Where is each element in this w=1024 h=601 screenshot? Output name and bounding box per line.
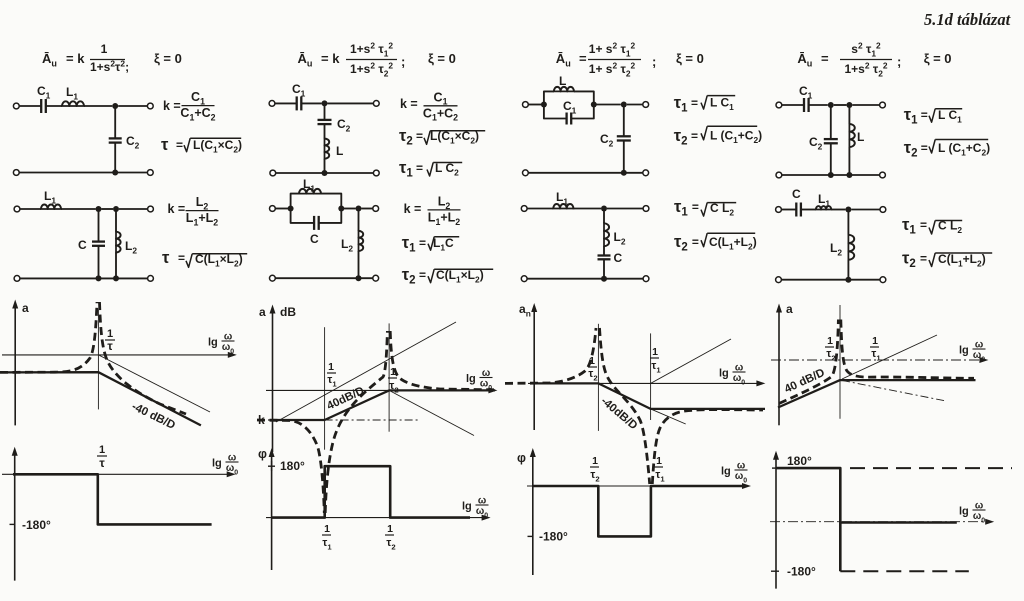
wire: parallel box frame (col2 ckt2) bbox=[291, 194, 342, 209]
curve: notch+resonance response dashed (col2 magnitude) bbox=[257, 331, 494, 513]
capacitor C2 shunt (col3 ckt1) bbox=[617, 135, 631, 137]
terminal: top-left (col4 ckt2) bbox=[776, 207, 782, 213]
svg-text:k =: k = bbox=[163, 99, 181, 113]
svg-text:;: ; bbox=[401, 54, 405, 69]
wire: bottom rail (col3 ckt1) bbox=[528, 172, 643, 174]
wire: shunt branch lower (col2 ckt1) bbox=[324, 159, 326, 173]
svg-text:=: = bbox=[176, 138, 183, 152]
asymptote: rising 40dB/D thin line (col2 magnitude) bbox=[276, 322, 456, 422]
node: parallel box left (col3 ckt1) bbox=[541, 102, 547, 108]
node: shunt junction top (col4 ckt2) bbox=[845, 207, 851, 213]
wire: input top rail (col2 ckt1) bbox=[275, 102, 297, 104]
terminal: bottom-left (col2 ckt2) bbox=[270, 275, 276, 281]
axis: vertical phi-axis (col1 phase) bbox=[14, 450, 16, 581]
inductor L2 shunt (col3 ckt2) bbox=[604, 223, 609, 246]
axis: vertical phi-axis (col2 phase) bbox=[271, 451, 273, 570]
capacitor C2 shunt (col1 ckt1) bbox=[109, 137, 122, 139]
axis: horizontal lg w/w0 axis (col3 phase) bbox=[527, 485, 745, 487]
curve: phase step +180 to 0 (col4 phase) bbox=[776, 468, 957, 571]
gridline at 1/tau2 (col2 magnitude) bbox=[388, 323, 390, 431]
svg-text:1: 1 bbox=[387, 523, 393, 535]
node: bottom junction (col2 ckt2) bbox=[356, 275, 362, 281]
svg-text:1: 1 bbox=[652, 346, 658, 358]
svg-text:=: = bbox=[921, 108, 928, 122]
gridline at 1/tau2 (col3 magnitude) bbox=[597, 324, 599, 431]
axis: vertical a-axis (col4 magnitude) bbox=[778, 307, 780, 425]
curve: phase pulse 0/-180 (col3 phase) bbox=[533, 486, 745, 536]
line: dashed -180 continuation (col4 phase) bbox=[840, 570, 969, 572]
gridline at 1/tau2 (col4 magnitude) bbox=[839, 305, 841, 419]
svg-text:lg: lg bbox=[721, 466, 731, 478]
wire: shunt branch (col1 ckt1) bbox=[114, 106, 116, 138]
svg-text:1: 1 bbox=[592, 455, 598, 467]
node: shunt junction top (col3 ckt2) bbox=[601, 206, 607, 212]
svg-text:1: 1 bbox=[656, 455, 662, 467]
svg-text:τ: τ bbox=[161, 136, 169, 154]
svg-text:=: = bbox=[920, 252, 927, 266]
node: shunt junction top (col3 ckt1) bbox=[621, 102, 627, 108]
curve: resonance response dashed (col1 magnitude) bbox=[0, 302, 186, 414]
wire: bottom rail (col2 ckt1) bbox=[276, 172, 374, 174]
svg-text:lg: lg bbox=[208, 337, 218, 349]
svg-text:=: = bbox=[416, 129, 423, 143]
terminal: top-right (col2 ckt2) bbox=[373, 206, 379, 212]
svg-text:lg: lg bbox=[959, 345, 969, 357]
terminal: bottom-left (col1 ckt1) bbox=[13, 170, 19, 176]
asymptote: rising 40dB/D then k level (col4 magnitude) bbox=[778, 380, 976, 407]
capacitor C (col4 ckt2) bbox=[795, 203, 797, 217]
terminal: top-left (col3 ckt1) bbox=[523, 102, 529, 108]
asymptote: rising thin extension (col4 magnitude) bbox=[842, 335, 937, 379]
inductor L1 (col4 ckt2) bbox=[816, 206, 831, 209]
node: top junction L (col4 ckt1) bbox=[846, 102, 852, 108]
asymptote: 0dB then -40dB/D then k level (col3 magnitude) bbox=[534, 383, 765, 409]
node: parallel box right (col3 ckt1) bbox=[591, 102, 597, 108]
terminal: top-left (col2 ckt1) bbox=[269, 101, 275, 107]
inductor L2 shunt (col2 ckt2) bbox=[359, 231, 364, 251]
inductor L1 (col3 ckt2) bbox=[553, 204, 573, 209]
terminal: top-left (col4 ckt1) bbox=[776, 102, 782, 108]
node: bottom junction L (col4 ckt1) bbox=[846, 172, 852, 178]
terminal: bottom-left (col3 ckt1) bbox=[523, 170, 529, 176]
node: top junction C2 (col4 ckt1) bbox=[828, 102, 834, 108]
wire: bottom rail (col1 ckt1) bbox=[19, 172, 148, 174]
wire: input top rail (col2 ckt2) bbox=[275, 208, 291, 210]
asymptote: descending dash-dot thin line (col4 magnitude) bbox=[842, 380, 946, 401]
svg-text:-180°: -180° bbox=[787, 565, 816, 579]
svg-text:=: = bbox=[178, 251, 185, 265]
terminal: top-right (col1 ckt1) bbox=[147, 103, 153, 109]
terminal: top-left (col2 ckt2) bbox=[270, 206, 276, 212]
inductor L shunt (col4 ckt1) bbox=[849, 124, 854, 147]
svg-text:φ: φ bbox=[258, 447, 267, 461]
svg-text:=: = bbox=[921, 141, 928, 155]
node: top junction (col2 ckt1) bbox=[322, 100, 328, 106]
wire: input top rail (col4 ckt1) bbox=[782, 104, 805, 106]
svg-text:k =: k = bbox=[168, 202, 186, 216]
node: top junction C branch (col1 ckt2) bbox=[96, 206, 102, 212]
terminal: top-left (col1 ckt2) bbox=[14, 206, 20, 212]
terminal: bottom-right (col1 ckt2) bbox=[148, 276, 154, 282]
terminal: bottom-left (col1 ckt2) bbox=[14, 276, 20, 282]
gridline at 1/tau (col1 magnitude) bbox=[97, 310, 99, 410]
svg-text:;: ; bbox=[897, 54, 901, 69]
axis: horizontal lg w/w0 axis (col3 magnitude) bbox=[528, 382, 759, 384]
svg-text:1: 1 bbox=[328, 361, 334, 373]
svg-text:1: 1 bbox=[324, 523, 330, 535]
svg-text:L: L bbox=[336, 144, 343, 158]
svg-text:L: L bbox=[857, 130, 864, 144]
terminal: top-right (col3 ckt2) bbox=[643, 206, 649, 212]
axis: horizontal lg w/w0 axis (col1 phase) bbox=[2, 473, 230, 475]
terminal: top-right (col2 ckt1) bbox=[373, 101, 379, 107]
svg-text:k =: k = bbox=[400, 97, 418, 111]
asymptote: -40dB/D thin extension (col3 magnitude) bbox=[651, 409, 686, 424]
inductor L1 (col1 ckt1) bbox=[62, 101, 84, 106]
terminal: top-right (col3 ckt1) bbox=[643, 102, 649, 108]
axis: horizontal lg w/w0 axis dash-dot (col4 phase) bbox=[770, 521, 988, 523]
tick 180 (col2 phase) bbox=[268, 465, 275, 467]
svg-text:=: = bbox=[691, 96, 698, 110]
svg-text:;: ; bbox=[652, 54, 656, 69]
tick 180 (col4 phase) bbox=[772, 467, 780, 469]
node: bottom junction (col4 ckt2) bbox=[845, 277, 851, 283]
tick -180 (col1 phase) bbox=[10, 523, 16, 525]
svg-text:lg: lg bbox=[462, 501, 472, 513]
svg-text:1: 1 bbox=[99, 444, 105, 456]
terminal: bottom-right (col3 ckt2) bbox=[643, 276, 649, 282]
svg-text:= k: = k bbox=[66, 51, 85, 66]
svg-text:180°: 180° bbox=[787, 454, 812, 468]
wire: shunt L2 branch (col4 ckt2) bbox=[847, 210, 849, 235]
svg-text:k =: k = bbox=[404, 202, 422, 216]
tick k (col2 magnitude) bbox=[268, 419, 277, 421]
svg-text:τ: τ bbox=[107, 339, 113, 353]
svg-text:1: 1 bbox=[872, 335, 878, 347]
wire: shunt branch middle (col3 ckt2) bbox=[603, 246, 605, 255]
axis: horizontal lg w/w0 axis (col1 magnitude) bbox=[2, 354, 231, 356]
wire: bottom rail (col1 ckt2) bbox=[20, 277, 148, 279]
node: parallel box left (col2 ckt2) bbox=[288, 206, 294, 212]
axis: vertical a-axis (col1 magnitude) bbox=[14, 303, 16, 425]
terminal: bottom-left (col4 ckt2) bbox=[776, 277, 782, 283]
asymptote: k level solid then rising 40dB/D (col2 magnitude) bbox=[273, 390, 496, 420]
svg-text:=: = bbox=[920, 218, 927, 232]
node: bottom junction C2 (col4 ckt1) bbox=[828, 172, 834, 178]
wire: parallel box frame (col3 ckt1) bbox=[544, 91, 594, 104]
terminal: bottom-left (col4 ckt1) bbox=[776, 172, 782, 178]
svg-text:a: a bbox=[22, 301, 29, 315]
svg-text:C: C bbox=[78, 238, 87, 252]
wire: bottom rail (col4 ckt1) bbox=[782, 174, 880, 176]
capacitor C shunt (col1 ckt2) bbox=[92, 240, 105, 242]
wire: shunt C2 branch (col4 ckt1) bbox=[830, 105, 832, 139]
axis: vertical phi-axis (col4 phase) bbox=[775, 453, 777, 589]
svg-text:=: = bbox=[579, 51, 587, 66]
capacitor C1 (col4 ckt1) bbox=[803, 98, 805, 112]
svg-text:L: L bbox=[559, 74, 566, 88]
wire: bottom rail (col2 ckt2) bbox=[276, 277, 374, 279]
svg-text:=: = bbox=[419, 236, 426, 250]
gridline at 1/tau1 (col3 magnitude) bbox=[650, 333, 652, 420]
axis: horizontal lg w/w0 axis (col2 magnitude) bbox=[266, 389, 491, 391]
svg-text:lg: lg bbox=[719, 368, 729, 380]
svg-text:a: a bbox=[259, 305, 266, 319]
node: shunt junction top (col2 ckt2) bbox=[356, 206, 362, 212]
terminal: bottom-right (col4 ckt2) bbox=[880, 277, 886, 283]
svg-text:a: a bbox=[786, 302, 793, 316]
inductor L shunt (col2 ckt1) bbox=[325, 139, 330, 159]
asymptote: 0dB -40dB/D thin line (col1 magnitude) bbox=[98, 355, 210, 412]
curve: resonance response dashed (col4 magnitude) bbox=[779, 320, 974, 404]
terminal: top-right (col4 ckt2) bbox=[880, 207, 886, 213]
svg-text:dB: dB bbox=[280, 305, 296, 319]
svg-text:=: = bbox=[692, 200, 699, 214]
wire: shunt C branch (col1 ckt2) bbox=[98, 209, 100, 242]
asymptote: k level + -40dB/D slope (col1 magnitude) bbox=[0, 372, 201, 425]
terminal: bottom-right (col1 ckt1) bbox=[147, 170, 153, 176]
svg-text:1: 1 bbox=[827, 335, 833, 347]
svg-text:= k: = k bbox=[321, 51, 340, 66]
inductor L1 (col2 ckt2) bbox=[299, 189, 321, 194]
svg-text:lg: lg bbox=[212, 458, 222, 470]
capacitor C (col2 ckt2) bbox=[313, 216, 315, 230]
axis: horizontal lg w/w0 axis dash-dot (col4 magnitude) bbox=[771, 359, 982, 361]
axis: vertical a-axis (col2 magnitude) bbox=[272, 308, 274, 452]
terminal: top-left (col1 ckt1) bbox=[13, 103, 19, 109]
terminal: bottom-right (col2 ckt1) bbox=[373, 170, 379, 176]
inductor L2 shunt (col4 ckt2) bbox=[848, 235, 854, 260]
wire: input top rail (col4 ckt2) bbox=[781, 209, 796, 211]
axis: vertical a-axis (col3 magnitude) bbox=[533, 306, 535, 430]
gridline at 1/tau1 (col2 magnitude) bbox=[324, 327, 326, 450]
terminal: top-left (col3 ckt2) bbox=[521, 206, 527, 212]
node: bottom junction (col3 ckt1) bbox=[621, 170, 627, 176]
tick -180 (col4 phase) bbox=[771, 570, 779, 572]
wire: shunt branch upper (col2 ckt1) bbox=[324, 103, 326, 120]
svg-text:C1+C2: C1+C2 bbox=[423, 106, 458, 122]
svg-text:180°: 180° bbox=[280, 459, 305, 473]
capacitor C1 (col2 ckt1) bbox=[296, 96, 298, 110]
svg-text:1: 1 bbox=[101, 42, 108, 56]
svg-text:-180°: -180° bbox=[539, 530, 568, 544]
svg-text:=: = bbox=[821, 51, 829, 66]
svg-text:=: = bbox=[691, 129, 698, 143]
svg-text:ξ = 0: ξ = 0 bbox=[676, 51, 704, 66]
svg-text:τ: τ bbox=[162, 249, 170, 267]
terminal: bottom-right (col4 ckt1) bbox=[880, 172, 886, 178]
svg-text:5.1d táblázat: 5.1d táblázat bbox=[924, 10, 1011, 29]
svg-text:C: C bbox=[614, 251, 623, 265]
node: bottom junction L2 (col1 ckt2) bbox=[113, 275, 119, 281]
line: dashed +180 continuation (col4 phase) bbox=[850, 467, 1012, 469]
svg-text:ξ = 0: ξ = 0 bbox=[428, 51, 456, 66]
svg-text:C1+C2: C1+C2 bbox=[180, 106, 215, 122]
wire: input top rail (col3 ckt1) bbox=[528, 104, 544, 106]
svg-text:τ: τ bbox=[99, 456, 105, 470]
axis: vertical phi-axis (col3 phase) bbox=[532, 451, 534, 575]
wire: shunt L2 branch (col2 ckt2) bbox=[358, 209, 360, 231]
axis: horizontal lg w/w0 axis (col2 phase) bbox=[266, 517, 485, 519]
capacitor C2 shunt (col4 ckt1) bbox=[824, 138, 838, 140]
terminal: top-right (col4 ckt1) bbox=[880, 102, 886, 108]
wire: shunt branch lower (col3 ckt2) bbox=[603, 259, 605, 278]
wire: bottom rail (col4 ckt2) bbox=[781, 279, 880, 281]
tick -180 (col3 phase) bbox=[528, 535, 534, 537]
node: bottom junction (col2 ckt1) bbox=[322, 170, 328, 176]
svg-text:=: = bbox=[416, 161, 423, 175]
terminal: bottom-left (col2 ckt1) bbox=[270, 170, 276, 176]
svg-text:φ: φ bbox=[517, 451, 526, 465]
inductor L2 shunt (col1 ckt2) bbox=[116, 232, 121, 253]
svg-text:C: C bbox=[310, 232, 319, 246]
svg-text:-180°: -180° bbox=[22, 518, 51, 532]
capacitor C1 (col3 ckt1) bbox=[565, 113, 567, 125]
wire: input top rail (col3 ckt2) bbox=[527, 208, 553, 210]
capacitor C1 (col1 ckt1) bbox=[40, 99, 42, 113]
inductor L1 (col1 ckt2) bbox=[41, 204, 61, 209]
node: top junction L2 branch (col1 ckt2) bbox=[113, 206, 119, 212]
asymptote: rising 40dB/D thin line (col3 magnitude) bbox=[651, 339, 731, 383]
wire: shunt C2 branch (col3 ckt1) bbox=[623, 105, 625, 136]
terminal: bottom-right (col3 ckt1) bbox=[643, 170, 649, 176]
node: bottom junction (col1 ckt1) bbox=[112, 170, 118, 176]
asymptote: descending thin line after 1/tau2 (col2 magnitude) bbox=[389, 390, 474, 435]
wire: input top rail (col1 ckt1) bbox=[19, 105, 41, 107]
inductor L (col3 ckt1) bbox=[554, 87, 574, 92]
capacitor C2 shunt (col2 ckt1) bbox=[318, 119, 332, 121]
svg-text:=: = bbox=[419, 268, 426, 282]
wire: shunt branch middle (col2 ckt1) bbox=[324, 124, 326, 139]
svg-text:C: C bbox=[792, 187, 801, 201]
curve: phase pulse 0/+180 (col2 phase) bbox=[272, 466, 470, 517]
svg-text:=: = bbox=[692, 235, 699, 249]
svg-text:lg: lg bbox=[959, 506, 969, 518]
terminal: top-right (col1 ckt2) bbox=[148, 206, 154, 212]
asymptote: k level dash-dot extension (col2 magnitude) bbox=[325, 419, 420, 421]
wire: bottom rail (col3 ckt2) bbox=[527, 278, 643, 280]
terminal: bottom-right (col2 ckt2) bbox=[373, 275, 379, 281]
terminal: bottom-left (col3 ckt2) bbox=[521, 276, 527, 282]
wire: shunt L branch (col4 ckt1) bbox=[848, 105, 850, 124]
node: bottom junction (col3 ckt2) bbox=[601, 276, 607, 282]
node: bottom junction C (col1 ckt2) bbox=[96, 275, 102, 281]
curve: resonance+notch response dashed (col3 magnitude) bbox=[505, 328, 763, 484]
wire: input top rail (col1 ckt2) bbox=[20, 208, 41, 210]
wire: shunt L2 branch (col1 ckt2) bbox=[115, 209, 117, 232]
svg-text:ξ = 0: ξ = 0 bbox=[154, 51, 182, 66]
node: top junction (col1 ckt1) bbox=[112, 103, 118, 109]
svg-text:lg: lg bbox=[466, 373, 476, 385]
capacitor C shunt (col3 ckt2) bbox=[598, 254, 611, 256]
node: parallel box right (col2 ckt2) bbox=[338, 206, 344, 212]
svg-text:ξ = 0: ξ = 0 bbox=[924, 51, 952, 66]
wire: shunt branch upper (col3 ckt2) bbox=[603, 209, 605, 224]
curve: phase step 0 to -180 (col1 phase) bbox=[13, 474, 212, 524]
